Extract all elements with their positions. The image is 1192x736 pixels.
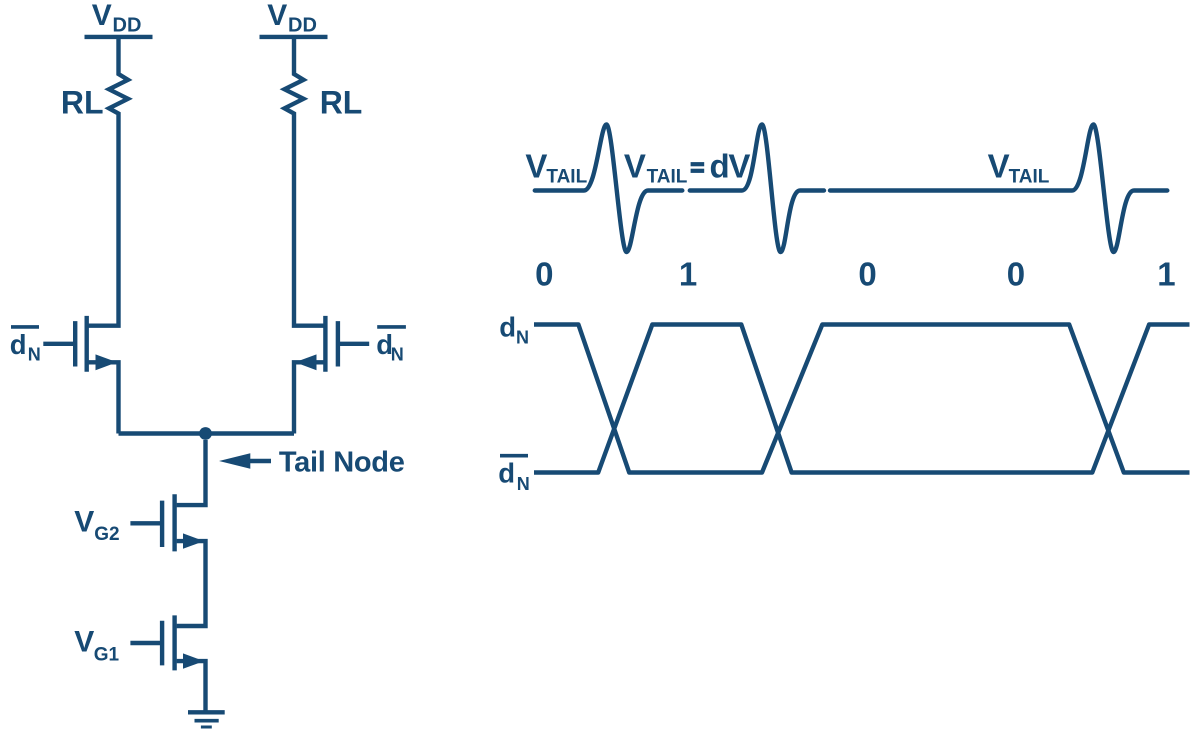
svg-text:N: N [391, 344, 404, 364]
svg-text:TAIL: TAIL [546, 167, 587, 188]
svg-text:d: d [499, 312, 516, 343]
svg-text:G1: G1 [94, 645, 120, 666]
svg-text:V: V [525, 147, 547, 184]
svg-text:V: V [74, 505, 94, 538]
svg-text:0: 0 [858, 256, 876, 293]
svg-text:V: V [988, 147, 1010, 184]
svg-text:V: V [267, 0, 287, 32]
svg-text:N: N [517, 474, 530, 494]
svg-text:0: 0 [1007, 256, 1025, 293]
svg-text:V: V [624, 147, 646, 184]
svg-text:RL: RL [320, 84, 363, 120]
svg-text:N: N [516, 328, 529, 348]
svg-text:0: 0 [535, 256, 553, 293]
svg-text:G2: G2 [94, 524, 119, 545]
svg-text:dV: dV [710, 147, 751, 184]
svg-text:RL: RL [61, 84, 104, 120]
svg-text:V: V [74, 626, 94, 659]
svg-text:N: N [28, 344, 41, 364]
svg-text:V: V [92, 0, 112, 32]
svg-text:1: 1 [679, 256, 697, 293]
svg-text:DD: DD [288, 15, 317, 37]
svg-text:TAIL: TAIL [1009, 167, 1050, 188]
svg-text:DD: DD [113, 15, 142, 37]
svg-text:TAIL: TAIL [647, 167, 688, 188]
svg-text:d: d [10, 329, 27, 360]
svg-text:Tail Node: Tail Node [279, 447, 405, 479]
svg-text:1: 1 [1157, 256, 1175, 293]
svg-text:d: d [498, 457, 515, 488]
